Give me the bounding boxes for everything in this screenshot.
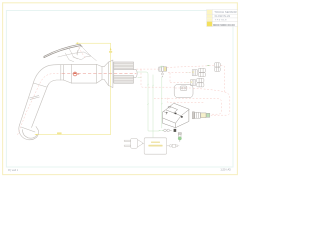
svg-text:Y P S T B JT: Y P S T B JT: [215, 19, 228, 21]
svg-text:1:20 / A3: 1:20 / A3: [220, 168, 231, 172]
svg-text:9000 9000 00.00: 9000 9000 00.00: [213, 23, 235, 27]
svg-text:TOUCH SENSOR: TOUCH SENSOR: [214, 10, 236, 14]
svg-text:Prj wall 1: Prj wall 1: [8, 169, 19, 172]
svg-text:FLOW-IN-LN: FLOW-IN-LN: [215, 14, 231, 18]
